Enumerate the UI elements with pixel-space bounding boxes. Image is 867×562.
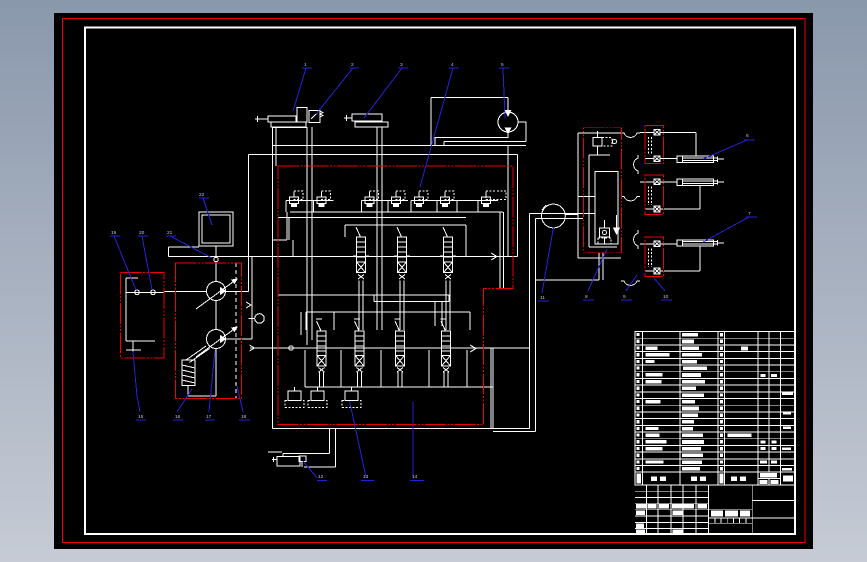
hose arc A5: [634, 230, 638, 249]
small valve SM3: [342, 387, 361, 408]
BOM row lines: [635, 338, 795, 465]
wire return pair right: [530, 214, 536, 432]
small valve SM1: [285, 387, 304, 408]
leader B4: [237, 386, 250, 420]
BOM header band: [635, 472, 795, 485]
gauge M1: [542, 204, 566, 228]
group box oil tank unit: [121, 273, 165, 359]
drain line dashed: [235, 263, 237, 398]
red sheet border: [63, 19, 806, 543]
wire drop pair to cooler: [283, 429, 336, 468]
cooler/filter F3: [277, 457, 300, 467]
svg-text:1: 1: [304, 62, 307, 68]
wire supply bus: [273, 145, 527, 147]
svg-text:22: 22: [199, 192, 205, 198]
spool valve SV5 lower: [354, 319, 364, 372]
spool valve SV1 upper: [353, 225, 369, 330]
leader 2: [316, 68, 359, 114]
check pair box2 squares: [640, 179, 660, 212]
svg-text:13: 13: [363, 474, 369, 480]
check tick 1: [246, 302, 251, 308]
spool valve SV4 lower: [316, 319, 326, 372]
leader C1: [303, 461, 327, 481]
wire left riser pump1: [248, 155, 250, 292]
hose arc A1: [621, 133, 640, 137]
arrow P1 variable: [196, 279, 237, 309]
gauge M2: [255, 314, 265, 324]
leader 4: [420, 68, 459, 187]
BOM no. column digits: [637, 333, 640, 336]
svg-text:7: 7: [748, 211, 751, 217]
pump P2: [207, 330, 226, 349]
leader 7: [703, 217, 757, 242]
small valve SM2: [308, 387, 327, 408]
relief valve RV5: [411, 191, 431, 212]
title block right box: [752, 500, 795, 518]
filter F2: [352, 114, 382, 121]
relief valve RV7: [478, 191, 506, 212]
group box check pair 2: [645, 175, 664, 215]
hose arc A2: [621, 197, 640, 201]
leader 9: [621, 275, 637, 300]
wire vertical pair from F2: [377, 127, 382, 330]
check tick 2: [250, 345, 255, 351]
svg-text:19: 19: [111, 230, 117, 236]
wire mid frame rects: [289, 218, 466, 257]
arrow P2 variable: [196, 327, 237, 357]
svg-text:9: 9: [623, 294, 626, 300]
svg-text:16: 16: [175, 414, 181, 420]
oil tank internals: [126, 278, 155, 352]
svg-text:3: 3: [400, 62, 403, 68]
relief valve RV1: [286, 191, 306, 212]
svg-text:18: 18: [241, 414, 247, 420]
svg-text:8: 8: [585, 294, 588, 300]
pump P1: [207, 282, 226, 301]
wire vertical pair from B2: [307, 127, 312, 345]
wire pump right branch: [444, 122, 526, 146]
relief valve RV2: [313, 191, 333, 212]
wire bus drops: [508, 146, 518, 257]
wire relief collector: [278, 212, 503, 218]
filter F4: [182, 360, 195, 386]
wire lower pedestal rects: [305, 348, 493, 429]
right unit inner rect: [595, 172, 618, 245]
group box check pair 1: [645, 126, 664, 164]
title block middle small cells: [715, 518, 746, 523]
title block left grid horizontals: [635, 491, 709, 528]
wire gauge line: [530, 205, 596, 219]
tank T1: [199, 212, 233, 246]
valve B1: [297, 108, 307, 123]
relief valve RV4: [388, 191, 408, 212]
svg-text:4: 4: [451, 62, 454, 68]
leader 5: [499, 68, 509, 118]
triangle vent: [614, 228, 620, 234]
relief valve RV3: [361, 191, 381, 212]
port circle a: [135, 290, 140, 295]
svg-text:5: 5: [501, 62, 504, 68]
svg-text:10: 10: [663, 294, 669, 300]
right unit inner valve V2: [598, 220, 611, 244]
BOM name column text blobs: [682, 333, 698, 337]
spool valve SV7 lower: [441, 319, 451, 372]
check pair box3 squares: [640, 241, 660, 274]
wire mid arrow line: [169, 253, 518, 260]
svg-text:6: 6: [746, 133, 749, 139]
wire lower valve stubs: [320, 372, 449, 387]
leader tank: [199, 198, 212, 225]
wire cross mark: [268, 451, 282, 453]
valve B2: [309, 111, 320, 123]
spool valve SV6 lower: [395, 319, 405, 372]
svg-text:2: 2: [351, 62, 354, 68]
leader B2: [173, 389, 192, 420]
leader B3: [205, 350, 215, 420]
node circle: [289, 346, 293, 350]
wire left step: [273, 212, 293, 257]
leader gauge: [538, 227, 554, 301]
BOM column lines: [643, 332, 781, 486]
white drawing frame: [85, 28, 795, 535]
wire lead-in filter F2: [344, 115, 352, 121]
title block left grid verticals: [647, 485, 709, 534]
filter F1: [268, 116, 296, 122]
relief valve RV6: [437, 191, 457, 212]
cylinder CYL1: [660, 132, 724, 162]
svg-text:14: 14: [412, 474, 418, 480]
port circle b: [151, 290, 156, 295]
wire tank drop + node: [215, 246, 217, 282]
spool valve SV2 upper: [394, 225, 410, 330]
change-log header text row: [636, 504, 646, 508]
wire pump1 outlet: [226, 291, 249, 293]
group box pump unit: [176, 263, 242, 399]
leader 1: [293, 68, 312, 111]
spool valve SV3 upper: [440, 225, 456, 330]
wire lead-in left filter: [255, 116, 268, 122]
BOM code column text blobs: [646, 346, 658, 349]
BOM table outline: [635, 332, 795, 473]
right unit left rail: [565, 133, 621, 258]
wire tank line: [126, 291, 164, 293]
right unit inner valve V1: [589, 131, 617, 247]
wire mid horizontals: [278, 295, 470, 335]
svg-text:11: 11: [540, 295, 545, 301]
pump P3 circuit top rectangle: [431, 98, 508, 146]
wire pump2 outlet: [226, 257, 253, 340]
pump P3: [498, 112, 518, 132]
leader L1: [110, 236, 136, 290]
wire pump outlet: [435, 132, 508, 146]
group box valve bank: [278, 166, 513, 425]
leader 8: [583, 249, 607, 300]
wire top link: [273, 127, 308, 129]
leader 10: [653, 277, 672, 300]
wire pump column: [186, 301, 216, 397]
wire lower return: [250, 347, 530, 349]
wire suction: [164, 291, 207, 293]
BOM qty column digits: [720, 333, 723, 336]
header band labels: [636, 474, 641, 484]
cylinder CYL2: [660, 179, 724, 209]
group box control unit: [584, 128, 622, 253]
svg-text:21: 21: [167, 230, 173, 236]
svg-text:15: 15: [138, 414, 144, 420]
hose arc A4: [634, 155, 638, 174]
wire return arrow: [470, 345, 476, 352]
leader C2: [350, 401, 375, 481]
wire right returns: [536, 253, 625, 281]
svg-text:12: 12: [318, 474, 324, 480]
wire return bus: [249, 154, 518, 156]
check pair box1 squares: [640, 129, 660, 161]
cylinder CYL3: [660, 240, 724, 271]
wire tank drain: [169, 247, 200, 257]
group box check pair 3: [645, 237, 664, 277]
leader 6: [703, 140, 755, 159]
valve bank bottom box: [273, 212, 536, 432]
hose arc A3: [621, 281, 640, 285]
svg-text:20: 20: [139, 230, 145, 236]
leader L2: [138, 236, 152, 290]
svg-text:17: 17: [206, 414, 212, 420]
title block middle box: [709, 485, 753, 534]
BOM misc cells blobs: [741, 347, 748, 351]
title rows texts: [636, 511, 645, 516]
leader B1: [133, 352, 146, 420]
leader L3: [166, 236, 212, 258]
leader C3: [410, 402, 424, 481]
drawing title text: [711, 511, 723, 517]
wire relief inter-links: [299, 201, 482, 213]
valve bank left edge: [273, 128, 277, 429]
leader 3: [364, 68, 408, 118]
